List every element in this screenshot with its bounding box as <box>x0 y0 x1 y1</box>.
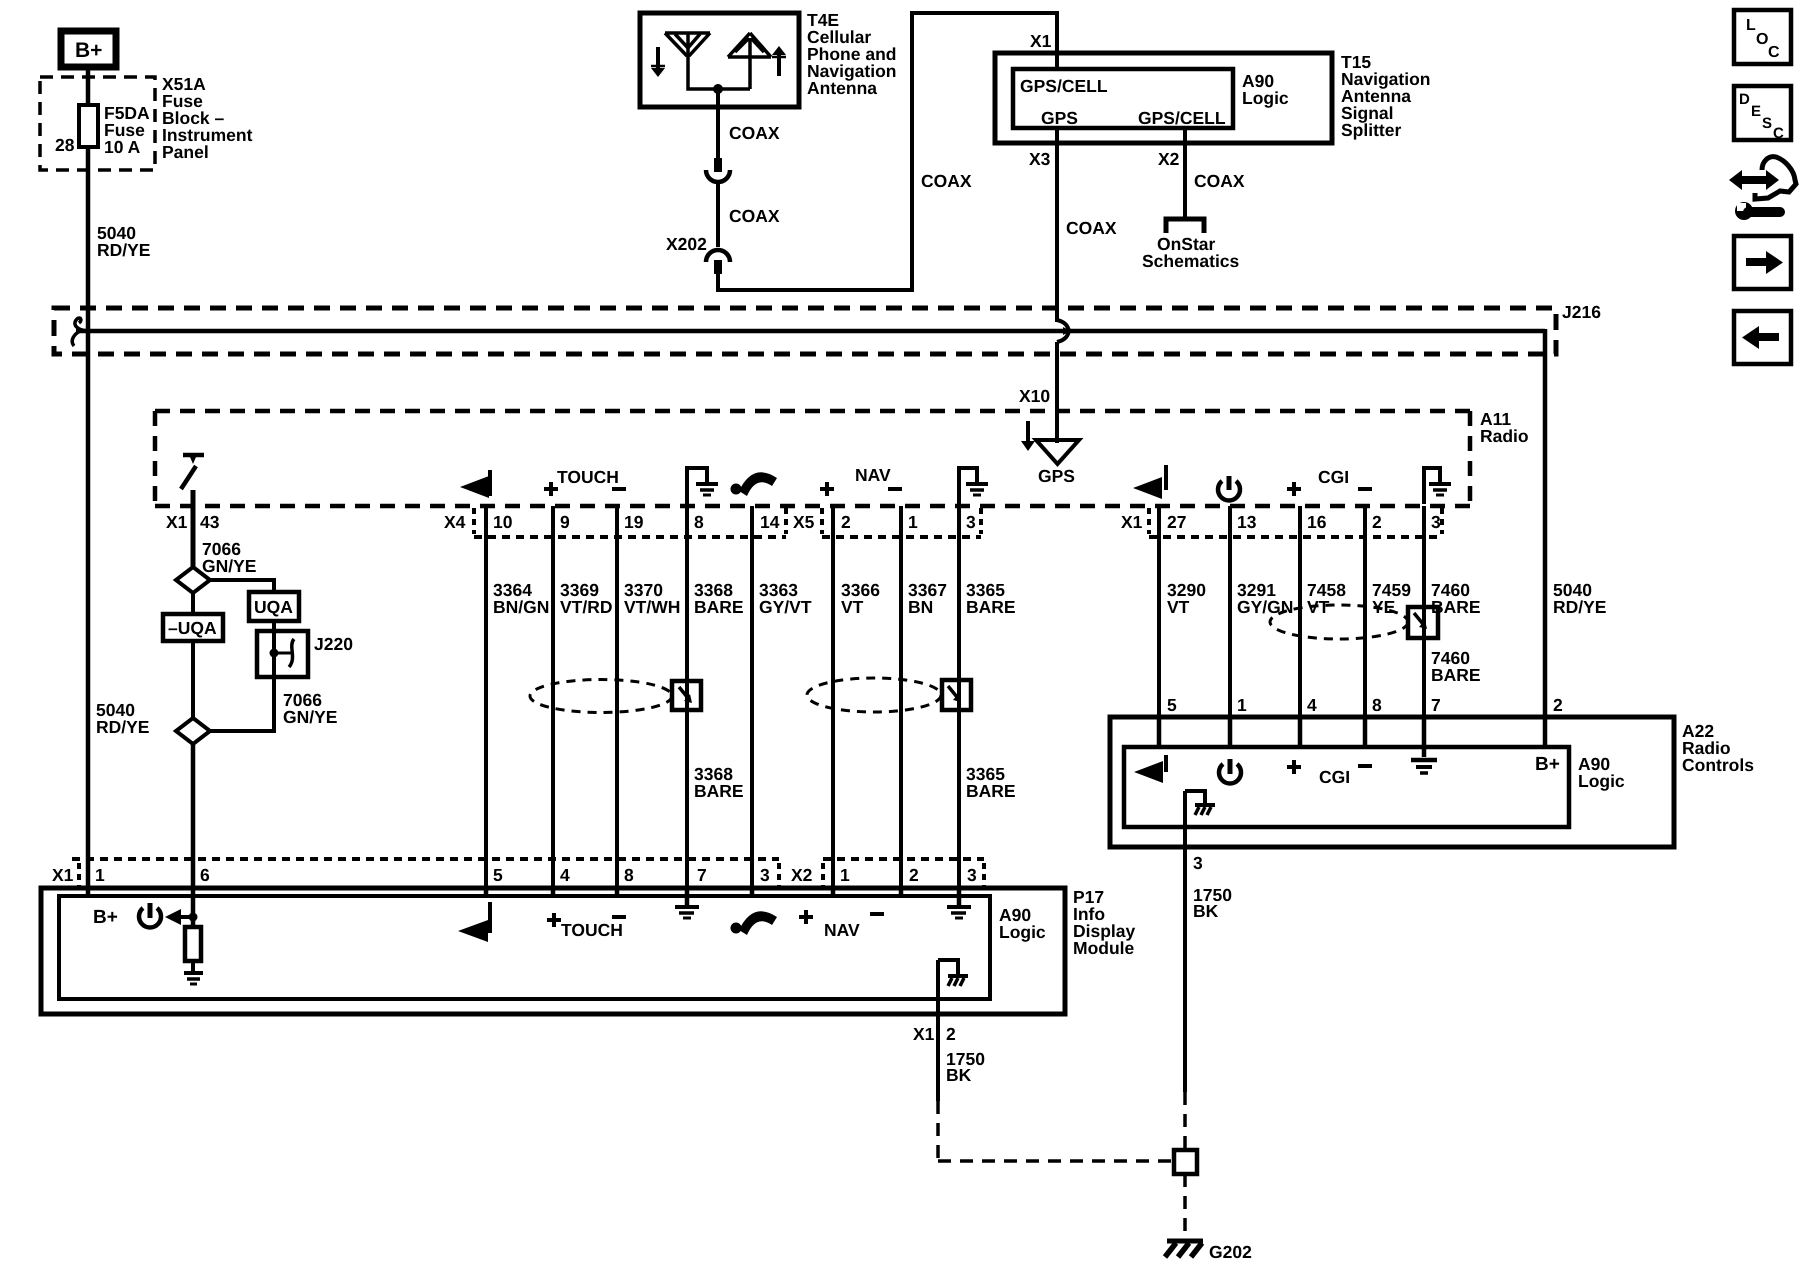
svg-text:BN: BN <box>908 597 933 617</box>
signal-direction left arrow at P17 pin 6 <box>165 909 198 925</box>
svg-text:X202: X202 <box>666 234 707 254</box>
svg-text:10: 10 <box>493 512 513 532</box>
antenna module T4E box <box>640 13 799 107</box>
svg-text:J216: J216 <box>1562 302 1601 322</box>
svg-text:UQA: UQA <box>254 597 293 617</box>
wire hop where GPS coax crosses J216 bus <box>1057 320 1069 342</box>
shield ground icon at pin X5-3 <box>959 468 988 504</box>
drain arrow inside CGI shield box <box>1414 613 1427 629</box>
splice symbol inside J220 <box>270 631 295 677</box>
coax wire from T4E down to X202 <box>716 89 720 160</box>
shield drain box (NAV) <box>942 680 971 710</box>
power icon at A22 pin 1 <box>1219 759 1241 783</box>
logic block A90 inner box of A22 <box>1124 747 1569 827</box>
svg-text:Module: Module <box>1073 938 1135 958</box>
pin X1 stub into T15 <box>1055 53 1059 69</box>
pin stubs into P17 <box>88 886 959 898</box>
pin stubs into A22 <box>1159 715 1545 757</box>
svg-text:VT: VT <box>841 597 864 617</box>
splice diamond (option) upper on circuit 7066 <box>176 567 210 593</box>
shield drain box (CGI) <box>1408 607 1438 638</box>
svg-text:GPS: GPS <box>1041 108 1078 128</box>
svg-text:2: 2 <box>1372 512 1382 532</box>
svg-text:B+: B+ <box>1535 754 1560 775</box>
signal-direction down arrow at X10 <box>1021 421 1035 451</box>
svg-text:14: 14 <box>760 512 780 532</box>
svg-text:L: L <box>1746 17 1756 34</box>
audio out arrow icon at A22 pin 5 <box>1134 755 1166 783</box>
svg-text:13: 13 <box>1237 512 1257 532</box>
ground G202 chassis symbol <box>1165 1241 1203 1257</box>
svg-text:E: E <box>1751 103 1761 120</box>
svg-text:BARE: BARE <box>1431 665 1481 685</box>
svg-text:X4: X4 <box>444 512 466 532</box>
power icon inside P17 <box>139 903 161 927</box>
svg-text:–UQA: –UQA <box>168 618 217 638</box>
wire from lower diamond to P17 pin 6 <box>191 744 196 888</box>
svg-text:O: O <box>1756 31 1768 48</box>
svg-text:1: 1 <box>908 512 918 532</box>
svg-text:Radio: Radio <box>1480 426 1529 446</box>
radio A11 dashed box <box>155 411 1470 506</box>
switch symbol inside A11 at pin X1-43 <box>181 455 204 489</box>
toolbar icon DESC <box>1734 86 1791 142</box>
shield ellipse (CGI) <box>1270 605 1408 639</box>
ground symbol inside P17 (pin 6 circuit) <box>184 973 203 984</box>
svg-text:NAV: NAV <box>855 465 891 485</box>
svg-text:7: 7 <box>1431 695 1441 715</box>
svg-text:COAX: COAX <box>729 123 780 143</box>
svg-text:Logic: Logic <box>999 922 1046 942</box>
svg-text:Logic: Logic <box>1578 771 1625 791</box>
svg-text:5: 5 <box>1167 695 1177 715</box>
svg-text:1: 1 <box>95 865 105 885</box>
svg-text:Controls: Controls <box>1682 755 1754 775</box>
coax wire GPS from T15 X3 down to radio X10 <box>1055 128 1059 322</box>
connector X1 strip <box>1149 508 1442 537</box>
svg-text:4: 4 <box>1307 695 1317 715</box>
svg-text:TOUCH: TOUCH <box>561 920 623 940</box>
svg-text:BARE: BARE <box>694 781 744 801</box>
svg-text:GPS/CELL: GPS/CELL <box>1138 108 1226 128</box>
connector X4 strip <box>474 508 786 537</box>
chassis ground icon inside A22 <box>1185 791 1215 815</box>
ground symbol at P17 pin 7 <box>675 896 699 918</box>
svg-text:X1: X1 <box>1121 512 1143 532</box>
svg-text:D: D <box>1739 91 1750 108</box>
wire 3365 BARE drain (A11 X5-3 to P17 X2-3) <box>957 506 961 888</box>
fuse F5DA 10A <box>79 105 98 147</box>
svg-text:GN/YE: GN/YE <box>202 556 256 576</box>
minus sign (NAV -) at P17 X2-2 <box>870 912 884 916</box>
svg-text:3: 3 <box>966 512 976 532</box>
wire 3363 GY/VT (A11 X4-14 to P17 X1-3) <box>750 506 754 888</box>
svg-text:Splitter: Splitter <box>1341 120 1401 140</box>
svg-text:B+: B+ <box>93 907 118 928</box>
svg-text:6: 6 <box>200 865 210 885</box>
audio out arrow icon at P17 pin 5 <box>458 902 490 942</box>
svg-text:COAX: COAX <box>1194 171 1245 191</box>
wire 1750 BK from P17 chassis ground <box>936 960 940 1101</box>
svg-text:C: C <box>1768 44 1780 61</box>
plus sign (CGI +) at pin X1-16 <box>1287 482 1301 496</box>
wire resistor to ground <box>191 961 195 972</box>
wire P17 pin 6 to resistor <box>191 896 196 928</box>
svg-text:VT/RD: VT/RD <box>560 597 613 617</box>
toolbar icon schematic navigation (arrows and wrench) <box>1729 157 1796 220</box>
svg-text:GY/GN: GY/GN <box>1237 597 1293 617</box>
svg-text:B+: B+ <box>75 39 102 62</box>
wire 5040 RD/YE from J216 bus right end down to A22 pin 2 <box>1543 329 1548 716</box>
svg-text:X3: X3 <box>1029 149 1051 169</box>
connector X202 female cup lower <box>706 250 730 262</box>
svg-text:1: 1 <box>1237 695 1247 715</box>
logic block A90 inner box of P17 <box>59 896 990 999</box>
ground symbol at P17 X2-3 <box>947 896 971 918</box>
wire 7459 YE (A11 X1-2 to A22 pin 8) <box>1363 506 1367 717</box>
svg-text:G202: G202 <box>1209 1242 1252 1262</box>
svg-text:CGI: CGI <box>1319 767 1350 787</box>
display module P17 outer box <box>41 888 1065 1014</box>
svg-text:3: 3 <box>967 865 977 885</box>
coax wire from T15 X2 down to OnStar <box>1183 128 1187 218</box>
svg-text:C: C <box>1773 125 1784 142</box>
minus sign (NAV -) at pin X5-1 <box>888 487 902 491</box>
svg-text:X1: X1 <box>913 1024 935 1044</box>
svg-text:COAX: COAX <box>729 206 780 226</box>
wire (in-harness dashed) from A22 ground to junction <box>1183 1092 1187 1150</box>
svg-text:8: 8 <box>694 512 704 532</box>
power symbol B+ battery feed <box>61 31 116 67</box>
svg-text:BARE: BARE <box>966 781 1016 801</box>
minus sign (TOUCH -) at P17 pin 8 <box>612 915 626 919</box>
svg-text:X10: X10 <box>1019 386 1050 406</box>
svg-text:Logic: Logic <box>1242 88 1289 108</box>
svg-text:NAV: NAV <box>824 920 860 940</box>
svg-text:2: 2 <box>946 1024 956 1044</box>
plus sign (TOUCH +) at P17 pin 4 <box>547 913 561 927</box>
svg-text:27: 27 <box>1167 512 1186 532</box>
minus sign (CGI -) at pin X1-2 <box>1358 487 1372 491</box>
drain arrow inside NAV shield box <box>948 686 961 702</box>
wire 3366 VT (A11 X5-2 to P17 X2-1) <box>831 506 835 888</box>
wire 5040 RD/YE from B+ down through fuse to J216 and P17 pin X1-1 <box>86 67 91 888</box>
svg-text:YE: YE <box>1372 597 1395 617</box>
svg-text:RD/YE: RD/YE <box>1553 597 1606 617</box>
svg-text:BK: BK <box>1193 901 1219 921</box>
wire 3290 VT (A11 X1-27 to A22 pin 5) <box>1157 506 1161 717</box>
plus sign (TOUCH +) at pin X4-9 <box>544 482 558 496</box>
svg-text:2: 2 <box>1553 695 1563 715</box>
option label UQA box <box>249 592 299 621</box>
wire 1750 BK from A22 chassis ground <box>1183 791 1187 1092</box>
shield ground icon at pin X1-3 <box>1424 468 1451 504</box>
splitter T15 outer box <box>995 53 1332 143</box>
GPS antenna input triangle inside A11 <box>1036 440 1079 464</box>
logic block A90 inner box of T15 <box>1013 69 1233 128</box>
handset icon at P17 pin 3 <box>731 911 778 935</box>
shield ground icon at pin X4-8 <box>687 468 718 504</box>
wire 7458 VT (A11 X1-16 to A22 pin 4) <box>1298 506 1302 717</box>
ground symbol at A22 pin 7 <box>1411 760 1437 773</box>
plus sign (CGI +) at A22 pin 4 <box>1287 760 1301 774</box>
audio out arrow icon at pin X1-27 <box>1133 465 1166 499</box>
svg-text:Antenna: Antenna <box>807 78 877 98</box>
svg-text:VT/WH: VT/WH <box>624 597 680 617</box>
svg-text:CGI: CGI <box>1318 467 1349 487</box>
shield ellipse (NAV pair) <box>807 678 941 712</box>
svg-text:RD/YE: RD/YE <box>96 717 149 737</box>
svg-text:BK: BK <box>946 1065 972 1085</box>
svg-text:2: 2 <box>841 512 851 532</box>
splice diamond (option) lower <box>176 718 210 744</box>
wire 3368 BARE drain (A11 X4-8 to P17 X1-7) <box>685 506 689 888</box>
connector half (male pin) above X202 <box>714 158 722 172</box>
svg-text:9: 9 <box>560 512 570 532</box>
coax wire between connector halves <box>716 183 720 247</box>
off-page connector bracket to OnStar Schematics <box>1166 219 1204 233</box>
svg-text:1: 1 <box>840 865 850 885</box>
svg-text:X2: X2 <box>1158 149 1180 169</box>
pin stub X1-43 <box>191 490 196 568</box>
toolbar icon LOC <box>1734 10 1791 64</box>
plus sign (NAV +) at P17 X2-1 <box>799 910 813 924</box>
svg-text:X1: X1 <box>52 865 74 885</box>
svg-text:7: 7 <box>697 865 707 885</box>
svg-text:BARE: BARE <box>1431 597 1481 617</box>
radio controls A22 outer box <box>1110 717 1674 847</box>
shield drain box (TOUCH) <box>672 681 701 710</box>
junction dot inside T4E <box>713 84 723 94</box>
svg-text:BARE: BARE <box>966 597 1016 617</box>
svg-text:8: 8 <box>624 865 634 885</box>
svg-text:43: 43 <box>200 512 220 532</box>
splice J216 dashed band <box>54 308 1556 354</box>
wire 3364 BN/GN (A11 X4-10 to P17 X1-5) <box>484 506 488 888</box>
down arrow inside T4E <box>651 47 665 77</box>
wire 3367 BN (A11 X5-1 to P17 X2-2) <box>899 506 903 888</box>
svg-text:3: 3 <box>760 865 770 885</box>
connector X5 strip <box>822 508 981 537</box>
minus sign (CGI -) at A22 pin 8 <box>1358 764 1372 768</box>
svg-text:RD/YE: RD/YE <box>97 240 150 260</box>
svg-text:X1: X1 <box>1030 31 1052 51</box>
wire 7460 BARE drain (A11 X1-3 to A22 pin 7) <box>1422 506 1426 717</box>
connector strip X1/X2 above P17 <box>72 859 984 886</box>
drain arrow inside TOUCH shield box <box>679 687 692 703</box>
connector X202 male pin lower <box>714 260 722 274</box>
svg-text:28: 28 <box>55 135 75 155</box>
plus sign (NAV +) at pin X5-2 <box>820 482 834 496</box>
toolbar icon back arrow <box>1734 311 1791 364</box>
splice J216 bus wire <box>76 329 1545 334</box>
wire curl at left end of J216 bus <box>72 318 88 346</box>
up arrow inside T4E <box>772 46 786 76</box>
chassis ground icon inside P17 <box>938 960 968 986</box>
svg-text:2: 2 <box>909 865 919 885</box>
svg-text:3: 3 <box>1193 853 1203 873</box>
wire (dashed) junction to G202 <box>1183 1174 1187 1237</box>
wire (in-harness dashed) from P17 ground to junction <box>938 1101 1174 1161</box>
svg-text:19: 19 <box>624 512 644 532</box>
coax wire from X202 down, right, and up to T15 X1 <box>718 13 1057 290</box>
svg-text:16: 16 <box>1307 512 1327 532</box>
fuse block X51A dashed outline <box>40 77 155 170</box>
svg-text:COAX: COAX <box>1066 218 1117 238</box>
svg-text:GN/YE: GN/YE <box>283 707 337 727</box>
svg-text:GPS/CELL: GPS/CELL <box>1020 76 1108 96</box>
svg-text:10 A: 10 A <box>104 137 141 157</box>
svg-text:BN/GN: BN/GN <box>493 597 549 617</box>
svg-text:Schematics: Schematics <box>1142 251 1240 271</box>
svg-text:X5: X5 <box>793 512 815 532</box>
svg-text:TOUCH: TOUCH <box>557 467 619 487</box>
svg-text:X2: X2 <box>791 865 813 885</box>
wire 3370 VT/WH (A11 X4-19 to P17 X1-8) <box>615 506 619 888</box>
wire 3369 VT/RD (A11 X4-9 to P17 X1-4) <box>551 506 555 888</box>
wire from diamond to UQA option branch <box>209 580 274 592</box>
wire 3291 GY/GN (A11 X1-13 to A22 pin 1) <box>1228 506 1232 717</box>
svg-text:X1: X1 <box>166 512 188 532</box>
resistor (illumination load) inside P17 <box>185 927 201 961</box>
svg-text:VT: VT <box>1307 597 1330 617</box>
wire from J220 down to lower diamond <box>209 677 274 731</box>
svg-text:VT: VT <box>1167 597 1190 617</box>
svg-text:4: 4 <box>560 865 570 885</box>
svg-text:COAX: COAX <box>921 171 972 191</box>
cellular antenna symbol (inverted Y) <box>665 33 750 89</box>
svg-text:5: 5 <box>493 865 503 885</box>
wire UQA to J220 <box>272 621 276 631</box>
handset icon at pin X4-14 <box>731 472 778 496</box>
svg-text:8: 8 <box>1372 695 1382 715</box>
toolbar icon forward arrow <box>1734 236 1791 289</box>
svg-text:GY/VT: GY/VT <box>759 597 812 617</box>
connector half (female cup) of X202 upper <box>706 170 730 182</box>
minus sign (TOUCH -) at pin X4-19 <box>612 487 626 491</box>
GPS antenna symbol (triangle) <box>728 33 771 89</box>
power icon at pin X1-13 <box>1218 476 1240 500</box>
option label -UQA box <box>163 614 223 641</box>
svg-text:3: 3 <box>1431 512 1441 532</box>
audio out arrow icon at pin X4-10 <box>460 470 490 498</box>
ground junction block <box>1174 1150 1197 1174</box>
wire main through -UQA option <box>191 593 195 718</box>
svg-text:GPS: GPS <box>1038 466 1075 486</box>
shield ellipse (TOUCH pair) <box>530 680 672 713</box>
svg-text:Panel: Panel <box>162 142 209 162</box>
svg-text:BARE: BARE <box>694 597 744 617</box>
svg-text:J220: J220 <box>314 634 353 654</box>
svg-text:S: S <box>1762 115 1772 132</box>
splice J220 box <box>257 631 308 677</box>
